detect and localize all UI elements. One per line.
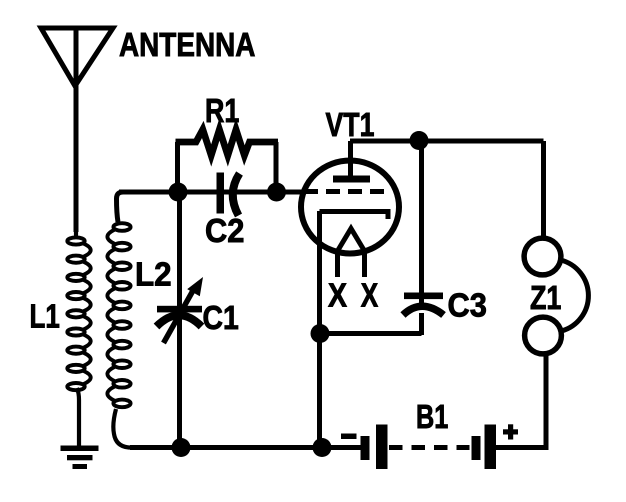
svg-text:L1: L1 xyxy=(30,298,60,335)
svg-text:C1: C1 xyxy=(203,299,239,336)
wire Z1 down to bottom rail xyxy=(544,353,549,448)
svg-text:B1: B1 xyxy=(416,398,448,435)
node cathode junction xyxy=(311,324,330,343)
VT1 cathode xyxy=(320,212,389,220)
Z1 earpiece bottom xyxy=(525,317,562,354)
svg-text:ANTENNA: ANTENNA xyxy=(119,26,255,63)
C1 variable arrow xyxy=(164,287,196,343)
node bottom junction 2 xyxy=(313,438,332,457)
C2 straight plate xyxy=(217,173,225,214)
C2 curved plate xyxy=(233,174,240,216)
C1 curved plate xyxy=(157,315,202,326)
svg-text:C2: C2 xyxy=(205,212,244,249)
inductor L2 xyxy=(107,223,181,447)
ground xyxy=(61,446,99,470)
capacitor C1 variable xyxy=(157,192,204,448)
vacuum tube VT1 xyxy=(301,141,399,277)
Z1 earpiece top xyxy=(524,238,561,275)
R1 zigzag xyxy=(176,130,279,156)
node junction A xyxy=(169,183,188,202)
C3 curved plate xyxy=(403,306,444,315)
wire antenna lead-in xyxy=(74,28,79,232)
B1 cell 1 xyxy=(361,436,370,460)
VT1 filament xyxy=(338,229,365,252)
svg-text:X: X xyxy=(328,277,347,314)
svg-text:R1: R1 xyxy=(205,92,239,129)
C1 straight plate xyxy=(157,306,202,313)
wire plate to top right xyxy=(350,139,544,144)
wire main horizontal junction A to tube xyxy=(119,190,303,195)
VT1 grid (dashed) xyxy=(304,189,390,194)
wire B1 plus to Z1 corner xyxy=(496,445,549,450)
wire junction A down through C1 to bottom rail xyxy=(177,192,182,448)
wire L2 top to junction A xyxy=(117,192,179,222)
Z1 headband arc xyxy=(561,260,589,331)
B1 minus sign xyxy=(341,434,357,440)
VT1 plate lead xyxy=(348,141,353,178)
wire top rail down to Z1 xyxy=(541,141,546,239)
antenna xyxy=(41,28,113,86)
VT1 envelope xyxy=(301,161,399,254)
capacitor C3 xyxy=(403,141,444,335)
svg-text:Z1: Z1 xyxy=(530,279,561,316)
inductor L1 xyxy=(67,228,90,446)
node bottom junction 1 xyxy=(172,438,191,457)
C3 bottom lead xyxy=(419,313,424,335)
VT1 plate xyxy=(333,176,370,183)
VT1 filament pin leads xyxy=(335,251,340,277)
svg-text:X: X xyxy=(361,277,378,314)
wire bottom rail xyxy=(130,445,363,450)
B1 cell 2 xyxy=(472,436,481,460)
node junction B xyxy=(267,183,286,202)
resistor R1 with loop wires xyxy=(176,130,279,195)
capacitor C2 xyxy=(217,173,240,216)
battery B1 xyxy=(341,424,549,469)
wire R1 right leg xyxy=(274,142,279,194)
wire top junction down to C3 xyxy=(419,141,424,303)
svg-text:VT1: VT1 xyxy=(326,106,375,143)
wire cathode junction to C3 xyxy=(320,331,422,336)
B1 plus sign xyxy=(503,429,518,434)
wire tube cathode down xyxy=(317,211,322,448)
wire R1 left leg xyxy=(175,142,180,194)
headphones Z1 xyxy=(524,141,588,448)
C3 straight plate xyxy=(404,293,443,300)
svg-text:C3: C3 xyxy=(448,287,487,324)
svg-text:L2: L2 xyxy=(135,256,172,293)
wire dashed between cells xyxy=(389,445,470,450)
node top junction xyxy=(410,131,429,150)
